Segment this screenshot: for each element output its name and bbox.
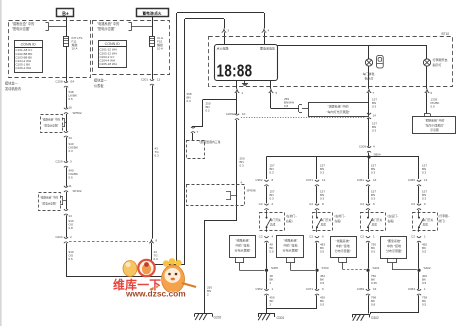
branch wire C371 — [316, 157, 318, 180]
branch wire C362 — [266, 157, 268, 180]
svg-text:0.5: 0.5 — [422, 250, 427, 254]
door jamb switch dashed box — [413, 213, 438, 231]
wire pin1 down — [236, 92, 238, 114]
wire fuse F11 to C158 — [66, 46, 68, 82]
svg-text:0.5: 0.5 — [422, 281, 427, 285]
door switch bus — [267, 156, 420, 158]
anti-theft alarm dashed box — [187, 141, 205, 159]
svg-text:"蓄靠系统": "蓄靠系统" — [387, 238, 401, 243]
svg-text:SP102: SP102 — [73, 189, 82, 193]
svg-text:车门开关: 车门开关 — [321, 218, 332, 222]
ref box lighting system trunk lamp — [413, 117, 456, 134]
svg-text:"熔断丝盒" 中的: "熔断丝盒" 中的 — [12, 21, 34, 26]
svg-text:分布示意图": 分布示意图" — [282, 248, 298, 253]
svg-text:中的 "接地: 中的 "接地 — [387, 243, 401, 248]
svg-text:C209: C209 — [359, 144, 367, 148]
branch wire C365 — [418, 157, 420, 180]
svg-text:C2: C2 — [259, 202, 263, 206]
svg-text:0.3: 0.3 — [69, 149, 74, 153]
branch wire C361 — [368, 157, 370, 180]
svg-text:总成: 总成 — [321, 223, 327, 227]
fuse F11 INT LTS 10A — [64, 37, 69, 47]
wire pin7 down to splice S804 — [368, 92, 370, 113]
svg-text:0.8: 0.8 — [284, 104, 289, 108]
svg-text:S305: S305 — [271, 266, 278, 270]
svg-text:行李厢开启: 行李厢开启 — [433, 57, 448, 62]
svg-text:0.3: 0.3 — [320, 197, 325, 201]
svg-text:13: 13 — [69, 136, 73, 140]
ref box power distribution (left upper) — [41, 115, 63, 133]
connector pin 14 on dotted tie — [367, 113, 371, 114]
svg-text:发动机舱内: 发动机舱内 — [5, 86, 21, 91]
svg-text:0.3: 0.3 — [270, 171, 275, 175]
connector T anti-theft — [191, 127, 195, 128]
svg-text:16: 16 — [69, 106, 73, 110]
door jamb switch dashed box — [361, 213, 386, 231]
svg-text:G302: G302 — [371, 316, 379, 320]
svg-text:车门开关: 车门开关 — [270, 218, 281, 222]
wire splice out — [66, 192, 68, 209]
wire lamp to pin 7 — [368, 66, 370, 89]
svg-text:C209A: C209A — [226, 112, 235, 116]
svg-text:12: 12 — [424, 178, 428, 182]
svg-text:13: 13 — [69, 214, 73, 218]
svg-text:0.5: 0.5 — [431, 105, 436, 109]
svg-text:C201: C201 — [141, 77, 149, 81]
svg-text:点火电路: 点火电路 — [217, 45, 229, 50]
svg-text:指示灯: 指示灯 — [365, 76, 374, 81]
ref box interior lamps schematic — [309, 103, 369, 117]
clock digits 18:88 — [217, 62, 253, 81]
branch to anti-theft module — [203, 99, 237, 101]
svg-text:(行李厢–: (行李厢– — [439, 214, 450, 218]
svg-text:"配电示意图": "配电示意图" — [97, 26, 115, 31]
svg-text:0.3: 0.3 — [187, 99, 192, 103]
svg-text:"配电示意图": "配电示意图" — [42, 202, 57, 206]
ignition wire to riser — [151, 243, 153, 265]
svg-text:中的 "接地: 中的 "接地 — [284, 243, 298, 248]
splice S402 — [417, 269, 420, 272]
module pin 4 — [262, 29, 267, 32]
svg-text:14: 14 — [373, 114, 377, 118]
wire pin6 to trunk lamp ref box — [426, 92, 428, 113]
ref box ground distribution 3 — [331, 237, 357, 258]
svg-text:指示灯: 指示灯 — [433, 62, 442, 67]
svg-text:0.5: 0.5 — [69, 176, 74, 180]
svg-text:T: T — [197, 130, 199, 134]
svg-text:0.5: 0.5 — [320, 250, 325, 254]
ground wire — [368, 295, 370, 313]
svg-text:左般): 左般) — [335, 219, 342, 223]
module pin 3 — [222, 29, 227, 32]
svg-text:"线路系统": "线路系统" — [336, 238, 350, 243]
svg-text:总成: 总成 — [372, 223, 378, 227]
power feed battery/ignition box — [137, 9, 169, 17]
svg-text:G301: G301 — [277, 316, 285, 320]
svg-text:右般): 右般) — [388, 219, 395, 223]
svg-text:总成: 总成 — [270, 223, 276, 227]
svg-text:"电路系统" 中的: "电路系统" 中的 — [97, 21, 119, 26]
svg-text:分布示意图": 分布示意图" — [386, 248, 402, 253]
wire splice out — [66, 114, 68, 131]
svg-text:"照明系统" 中的: "照明系统" 中的 — [425, 119, 445, 123]
svg-text:B+: B+ — [62, 11, 69, 17]
svg-text:0.5: 0.5 — [270, 250, 275, 254]
ground G302 — [353, 314, 370, 316]
svg-text:11: 11 — [69, 184, 72, 188]
wire label 548 LK/BK 0.5 — [66, 87, 68, 108]
wire label 940 OG/BK 0.5 — [66, 167, 68, 186]
svg-text:"配电示意图": "配电示意图" — [12, 26, 30, 31]
svg-text:0.5: 0.5 — [320, 303, 325, 307]
svg-text:0.3: 0.3 — [371, 197, 376, 201]
dotted line C209A pin10 to lamp wire — [241, 117, 366, 119]
svg-text:C362: C362 — [255, 178, 263, 182]
svg-text:16: 16 — [373, 178, 377, 182]
pin 6 — [425, 90, 430, 93]
svg-text:右般): 右般) — [286, 219, 293, 223]
svg-text:0.8: 0.8 — [69, 226, 74, 230]
door jamb switch dashed box — [260, 213, 285, 231]
svg-text:C364: C364 — [408, 287, 416, 291]
fuse F15 CLG 10A — [150, 37, 155, 47]
svg-text:CONN ID: CONN ID — [21, 43, 37, 47]
wire pin1 ground label 250 BN 0.3 — [236, 120, 238, 221]
svg-text:C2: C2 — [309, 234, 313, 238]
clock display module box — [215, 45, 278, 81]
svg-text:12: 12 — [157, 77, 161, 81]
module pin 5 stub — [270, 80, 272, 89]
svg-text:10: 10 — [242, 112, 246, 116]
svg-text:E4: E4 — [71, 79, 75, 83]
svg-text:C361: C361 — [357, 178, 365, 182]
ignition wire down with label 43 TG 0.3 — [152, 85, 154, 238]
IP fuse block dashed outline — [93, 21, 170, 75]
svg-text:S402: S402 — [424, 266, 431, 270]
svg-text:C2: C2 — [360, 234, 364, 238]
watermark dzsc mascots — [123, 258, 196, 293]
wire B+ down to fuse F11 — [66, 17, 68, 36]
pin 7 — [367, 90, 372, 93]
svg-text:总成: 总成 — [423, 223, 429, 227]
svg-text:16: 16 — [373, 287, 377, 291]
wire fuse to C201 — [152, 46, 154, 80]
svg-text:C369: C369 — [357, 287, 365, 291]
svg-text:仪表板: 仪表板 — [94, 83, 104, 88]
svg-text:蓄电池/点火: 蓄电池/点火 — [143, 11, 162, 16]
svg-text:0.3: 0.3 — [320, 171, 325, 175]
splice S703 — [315, 269, 318, 272]
svg-text:0.3: 0.3 — [372, 105, 377, 109]
svg-text:S804: S804 — [374, 153, 381, 157]
svg-text:0.8: 0.8 — [371, 303, 376, 307]
svg-text:"线路系统" 中的: "线路系统" 中的 — [42, 118, 61, 122]
svg-text:C2: C2 — [360, 202, 364, 206]
svg-text:0.3: 0.3 — [154, 257, 159, 261]
dashed same-connector line C224 pin 8 — [69, 241, 148, 243]
svg-text:0.3: 0.3 — [422, 197, 427, 201]
svg-text:(左后门–: (左后门– — [388, 214, 399, 218]
wire branch4 into G302 — [370, 313, 372, 314]
svg-text:SP098: SP098 — [247, 189, 256, 193]
svg-text:中的 "接地: 中的 "接地 — [236, 243, 250, 248]
riser wire battery up to pin4 — [176, 13, 178, 277]
svg-text:C224: C224 — [55, 235, 63, 239]
svg-text:0.5: 0.5 — [69, 257, 74, 261]
svg-text:C371: C371 — [306, 287, 314, 291]
svg-text:C2: C2 — [309, 202, 313, 206]
svg-text:C2: C2 — [259, 234, 263, 238]
door jamb switch dashed box — [313, 213, 333, 231]
svg-text:C371: C371 — [306, 178, 314, 182]
underhood fuse block dashed outline — [9, 21, 91, 78]
power feed B+ box — [57, 9, 74, 17]
module pin 1 stub — [236, 80, 238, 89]
CONN ID table left — [15, 41, 43, 73]
svg-text:舱门): 舱门) — [439, 219, 446, 223]
ref box ground distribution 4 — [381, 237, 407, 259]
splice S305 — [265, 269, 268, 272]
ground wire — [266, 295, 268, 313]
svg-text:"线路系统": "线路系统" — [235, 238, 249, 243]
svg-text:0.2: 0.2 — [206, 109, 211, 113]
svg-text:C2: C2 — [411, 234, 415, 238]
svg-text:C352: C352 — [255, 287, 263, 291]
svg-text:0.5: 0.5 — [320, 281, 325, 285]
wire down to fuse F15 — [152, 17, 154, 36]
svg-text:0.3: 0.3 — [240, 164, 245, 168]
instrument cluster dashed outline BT10 — [209, 37, 453, 87]
svg-text:"测距系统" 中的: "测距系统" 中的 — [328, 104, 349, 109]
svg-text:www.dzsc.com: www.dzsc.com — [125, 289, 186, 299]
ground G202 — [195, 313, 212, 315]
svg-text:0.3: 0.3 — [371, 171, 376, 175]
ref box ground distribution 2 — [277, 236, 304, 258]
svg-text:C2: C2 — [411, 202, 415, 206]
wire lamp to pin 6 — [426, 66, 428, 89]
ground wire to G202 — [204, 220, 237, 222]
svg-text:C158: C158 — [55, 79, 63, 83]
svg-text:(左前门–: (左前门– — [286, 214, 297, 218]
svg-text:模块盒—: 模块盒— — [5, 81, 19, 86]
svg-text:C205-18 WH: C205-18 WH — [100, 62, 117, 66]
svg-text:C365: C365 — [408, 178, 416, 182]
scan edge artifact — [0, 0, 2, 326]
svg-text:0.3: 0.3 — [372, 129, 377, 133]
svg-text:0.3: 0.3 — [270, 197, 275, 201]
svg-text:分布示意图": 分布示意图" — [234, 248, 250, 253]
svg-text:0.3: 0.3 — [155, 154, 160, 158]
svg-text:C229: C229 — [55, 159, 63, 163]
svg-text:0.3: 0.3 — [422, 171, 427, 175]
svg-text:(右前门–: (右前门– — [335, 214, 346, 218]
svg-text:飞脸报警器内三角: 飞脸报警器内三角 — [198, 140, 221, 144]
CONN ID table right — [99, 41, 127, 68]
svg-text:"线路系统": "线路系统" — [283, 238, 297, 243]
svg-text:10 A: 10 A — [157, 47, 163, 51]
svg-text:S703: S703 — [322, 266, 329, 270]
splice S401 — [366, 269, 369, 272]
svg-text:0.5: 0.5 — [69, 97, 74, 101]
svg-text:18:88: 18:88 — [217, 62, 253, 81]
lamp supply bus inside cluster — [277, 45, 427, 47]
svg-text:S401: S401 — [373, 266, 380, 270]
svg-text:0.5: 0.5 — [422, 303, 427, 307]
wire to dome lamp — [368, 46, 370, 60]
svg-text:"车内/行李厢灯": "车内/行李厢灯" — [425, 123, 445, 127]
svg-text:C106-2 WH: C106-2 WH — [16, 66, 32, 70]
wire label 940 OG/BK 0.3 — [66, 137, 68, 161]
wire branch2 ground tie down — [266, 309, 268, 314]
wire battery feed down and right to riser — [66, 243, 68, 277]
svg-text:"线路系统" 中的: "线路系统" 中的 — [40, 196, 59, 200]
svg-text:蓄电池电压: 蓄电池电压 — [260, 45, 275, 50]
svg-text:示意图: 示意图 — [430, 128, 439, 132]
riser wire ignition up to pin3 — [184, 19, 186, 265]
module internal ground — [244, 80, 246, 84]
svg-text:G202: G202 — [214, 316, 222, 320]
wire pin5 to interior lamps ref — [270, 92, 272, 108]
svg-text:中的 "接地: 中的 "接地 — [336, 243, 350, 248]
svg-text:"车内灯光示意图": "车内灯光示意图" — [326, 109, 349, 114]
wire label 940 OG 0.8 — [66, 215, 68, 237]
ground G301 — [258, 313, 275, 315]
trunk open indicator lamp — [423, 59, 430, 66]
ground wire — [316, 295, 318, 308]
ground wire — [418, 295, 420, 313]
splice S804 — [367, 155, 370, 158]
svg-text:0.5: 0.5 — [371, 250, 376, 254]
svg-text:车门开关: 车门开关 — [423, 218, 434, 222]
wire to trunk lamp — [426, 46, 428, 60]
door icon — [377, 56, 384, 69]
connector C224 pin 8 on ignition wire — [149, 240, 154, 243]
svg-text:"配电示意图": "配电示意图" — [44, 124, 59, 128]
svg-text:12: 12 — [322, 178, 326, 182]
dome lamp door ajar indicator — [365, 59, 372, 66]
svg-text:车门开关: 车门开关 — [372, 218, 383, 222]
svg-text:10 A: 10 A — [72, 47, 78, 51]
svg-text:SP592: SP592 — [73, 111, 82, 115]
svg-text:模块盒—: 模块盒— — [94, 78, 108, 83]
svg-text:CONN ID: CONN ID — [105, 42, 121, 46]
svg-text:BT10: BT10 — [442, 32, 450, 36]
svg-text:分布示意图": 分布示意图" — [335, 248, 351, 253]
ref box power distribution (left lower) — [39, 193, 61, 211]
ref box ground distribution 1 — [230, 236, 256, 258]
svg-text:0.35: 0.35 — [371, 281, 377, 285]
